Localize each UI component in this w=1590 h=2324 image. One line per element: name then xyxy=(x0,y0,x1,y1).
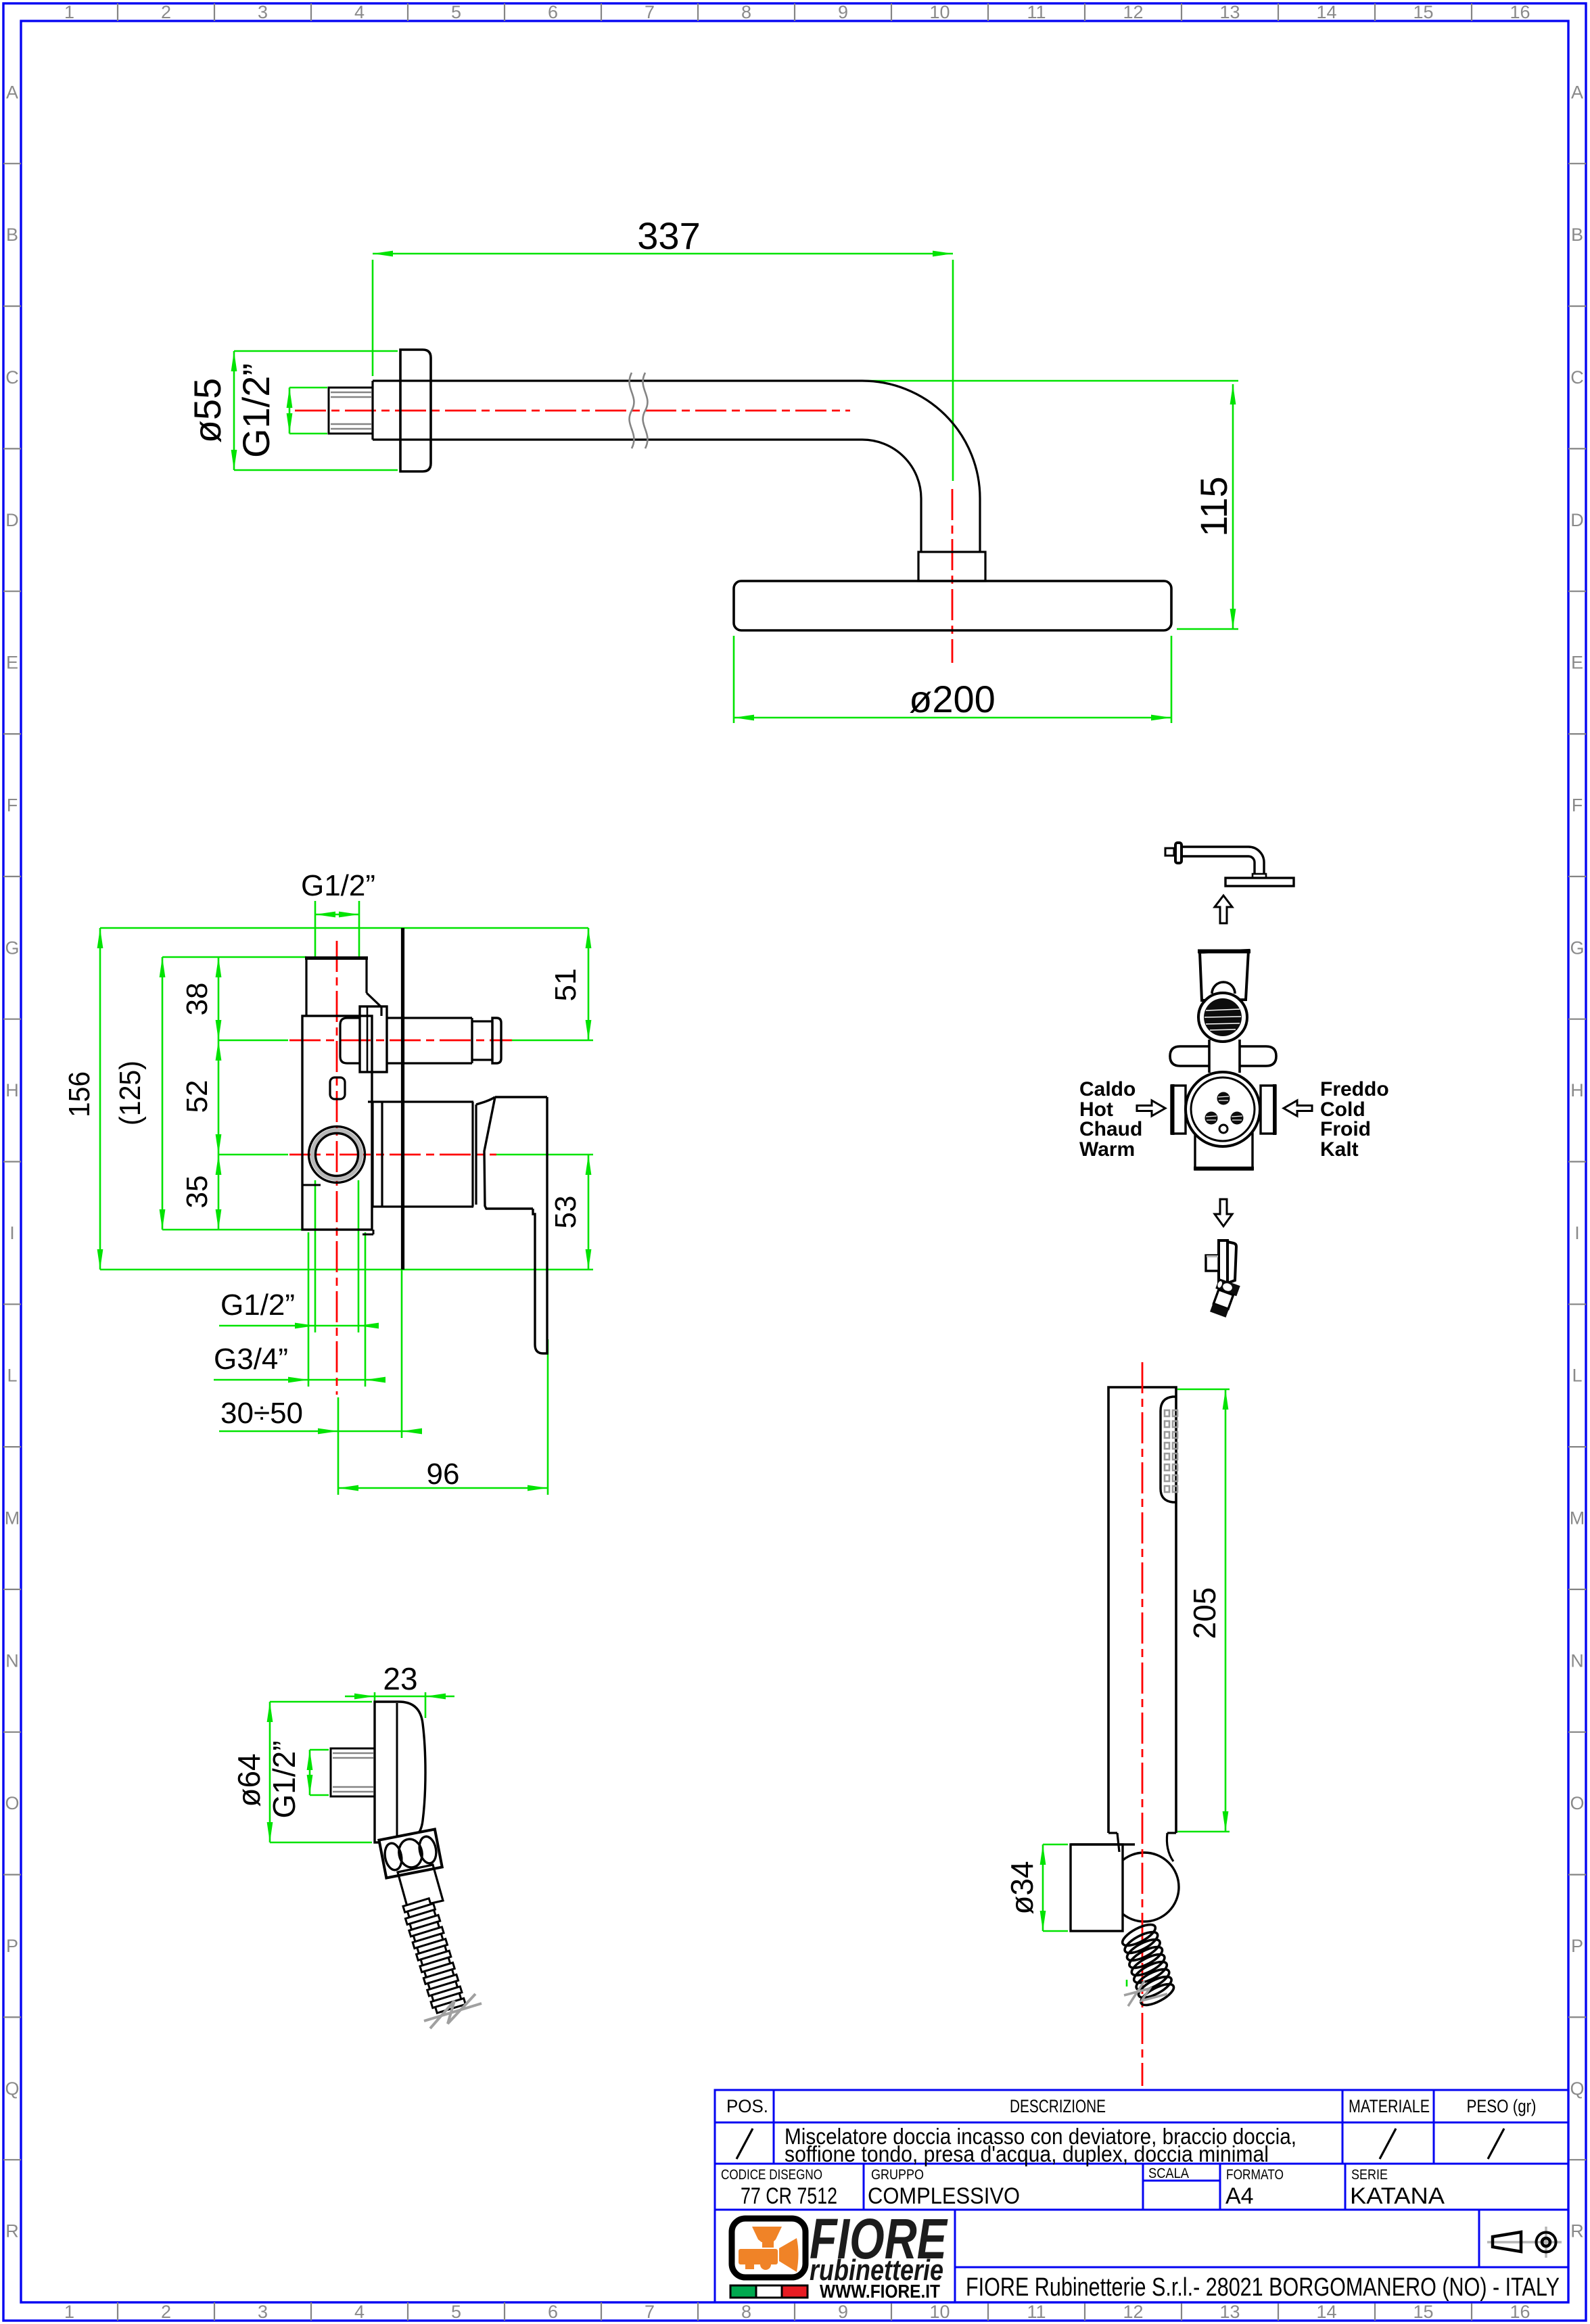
svg-text:10: 10 xyxy=(929,2302,950,2322)
svg-text:N: N xyxy=(1570,1650,1584,1671)
title block header labels xyxy=(726,2096,1537,2116)
svg-text:4: 4 xyxy=(354,2302,365,2322)
svg-text:10: 10 xyxy=(929,2,950,22)
dimension o200 xyxy=(734,717,1171,719)
svg-text:B: B xyxy=(6,225,18,245)
svg-text:Freddo: Freddo xyxy=(1320,1078,1389,1100)
svg-text:G3/4”: G3/4” xyxy=(214,1343,288,1376)
svg-text:96: 96 xyxy=(427,1458,460,1491)
svg-text:3: 3 xyxy=(258,2302,268,2322)
svg-text:ø64: ø64 xyxy=(231,1753,266,1807)
svg-text:4: 4 xyxy=(354,2,365,22)
deviator valve body xyxy=(340,1018,360,1063)
svg-text:D: D xyxy=(5,510,19,530)
deviator centerline xyxy=(289,1040,512,1042)
dimension G1/2 arm xyxy=(289,388,291,434)
outlet nipple G1/2 xyxy=(331,1748,375,1796)
cold labels xyxy=(1320,1078,1389,1161)
centerline arm horizontal xyxy=(295,410,850,412)
schematic shower arm icon xyxy=(1165,843,1294,886)
outlet dim arrowheads xyxy=(267,1694,446,1842)
svg-text:Kalt: Kalt xyxy=(1320,1138,1359,1161)
svg-text:O: O xyxy=(5,1793,19,1813)
svg-text:M: M xyxy=(1570,1508,1585,1529)
cold water arrow xyxy=(1284,1100,1312,1116)
deviator stem xyxy=(387,1018,472,1063)
body neck xyxy=(1108,1833,1176,1861)
svg-text:12: 12 xyxy=(1123,2302,1143,2322)
svg-text:P: P xyxy=(1571,1936,1583,1956)
dim o34 xyxy=(1043,1844,1068,1846)
svg-text:C: C xyxy=(5,367,19,388)
svg-text:WWW.FIORE.IT: WWW.FIORE.IT xyxy=(820,2281,940,2302)
ext+dim 30:50 xyxy=(337,1397,340,1438)
svg-text:POS.: POS. xyxy=(726,2096,768,2116)
deviator escutcheon xyxy=(360,1006,387,1072)
hose nut xyxy=(379,1830,442,1878)
hot water arrow xyxy=(1137,1100,1165,1116)
svg-text:E: E xyxy=(6,653,18,673)
svg-text:11: 11 xyxy=(1027,2,1046,22)
svg-text:I: I xyxy=(1574,1223,1580,1243)
spiral hose xyxy=(1119,1920,1176,2009)
dimension arrowheads arm xyxy=(231,251,1236,721)
svg-text:I: I xyxy=(9,1223,15,1243)
svg-text:R: R xyxy=(1570,2221,1584,2241)
svg-text:ø55: ø55 xyxy=(186,378,229,444)
hand shower red centerline xyxy=(1142,1362,1144,2086)
svg-text:9: 9 xyxy=(838,2302,848,2322)
svg-text:53: 53 xyxy=(549,1196,582,1229)
svg-text:14: 14 xyxy=(1316,2,1336,22)
svg-text:GRUPPO: GRUPPO xyxy=(871,2167,924,2183)
ext+dim G1/2 bottom xyxy=(314,1180,317,1332)
dim G1/2 top xyxy=(314,901,317,960)
pilot hole xyxy=(1219,1125,1227,1133)
spiral break mark xyxy=(1124,1981,1167,2006)
dim G1/2 outlet xyxy=(309,1750,311,1795)
up arrow xyxy=(1215,896,1232,923)
svg-text:16: 16 xyxy=(1510,2302,1530,2322)
svg-text:13: 13 xyxy=(1219,2,1240,22)
ext valve centerline right xyxy=(512,1040,593,1042)
svg-text:CODICE DISEGNO: CODICE DISEGNO xyxy=(721,2167,822,2183)
svg-text:FORMATO: FORMATO xyxy=(1226,2167,1284,2183)
svg-text:8: 8 xyxy=(741,2,751,22)
svg-text:A: A xyxy=(6,82,18,102)
svg-text:Warm: Warm xyxy=(1079,1138,1135,1161)
holder bracket xyxy=(1071,1844,1123,1931)
svg-text:E: E xyxy=(1571,653,1583,673)
svg-text:L: L xyxy=(1572,1366,1582,1386)
head connector xyxy=(918,552,985,581)
svg-text:15: 15 xyxy=(1413,2,1433,22)
hot labels xyxy=(1079,1078,1142,1161)
hose break mark xyxy=(424,1994,482,2028)
ribbed flexible hose xyxy=(402,1897,465,2014)
hand shower dim arrowheads xyxy=(1040,1389,1229,1931)
svg-text:G1/2”: G1/2” xyxy=(235,363,277,458)
svg-text:R: R xyxy=(5,2221,19,2241)
svg-text:3: 3 xyxy=(258,2,268,22)
svg-text:13: 13 xyxy=(1219,2302,1240,2322)
dimension 337 xyxy=(373,253,953,255)
svg-text:Froid: Froid xyxy=(1320,1118,1371,1140)
svg-text:14: 14 xyxy=(1316,2302,1336,2322)
ball joint xyxy=(1110,1853,1179,1922)
dim line 125 xyxy=(162,957,164,1230)
svg-text:G1/2”: G1/2” xyxy=(301,869,375,902)
schematic knob with hatch xyxy=(1198,993,1247,1042)
dimension arrowheads mixer xyxy=(97,912,592,1491)
wall flange xyxy=(400,350,431,471)
svg-text:SCALA: SCALA xyxy=(1148,2166,1189,2181)
svg-text:MATERIALE: MATERIALE xyxy=(1349,2096,1430,2116)
threaded nipple G1/2 xyxy=(329,388,373,434)
ext outlet centerline right xyxy=(496,1154,593,1156)
svg-text:5: 5 xyxy=(451,2302,461,2322)
svg-text:12: 12 xyxy=(1123,2,1143,22)
svg-text:2: 2 xyxy=(161,2302,171,2322)
svg-text:6: 6 xyxy=(548,2,558,22)
schematic hand shower icon xyxy=(1206,1240,1240,1318)
svg-text:H: H xyxy=(5,1080,19,1100)
svg-text:1: 1 xyxy=(64,2302,74,2322)
ext+dim 96 xyxy=(337,1438,340,1495)
bottom outlet rect xyxy=(1195,1134,1253,1169)
body detail slot xyxy=(330,1077,345,1099)
svg-text:337: 337 xyxy=(637,214,700,257)
svg-text:23: 23 xyxy=(383,1661,417,1696)
ext line top 125 xyxy=(162,956,306,958)
svg-text:P: P xyxy=(6,1936,18,1956)
svg-text:M: M xyxy=(5,1508,20,1529)
side inlet tabs xyxy=(1171,1086,1186,1134)
svg-text:30÷50: 30÷50 xyxy=(220,1397,303,1430)
svg-text:Chaud: Chaud xyxy=(1079,1118,1142,1140)
svg-text:SERIE: SERIE xyxy=(1351,2167,1388,2183)
svg-text:7: 7 xyxy=(645,2,655,22)
svg-text:N: N xyxy=(5,1650,19,1671)
svg-text:B: B xyxy=(1571,225,1583,245)
svg-text:2: 2 xyxy=(161,2,171,22)
dim line 53 xyxy=(588,1155,590,1270)
dome behind knob xyxy=(1212,982,1235,994)
svg-text:KATANA: KATANA xyxy=(1350,2183,1445,2209)
deviator knob xyxy=(472,1021,492,1060)
svg-text:Q: Q xyxy=(5,2078,19,2099)
svg-text:205: 205 xyxy=(1187,1587,1222,1640)
title block xyxy=(715,2090,1568,2302)
top supply pipe xyxy=(305,957,381,1016)
hand shower body xyxy=(1108,1387,1176,1833)
hatched ports xyxy=(1205,1092,1244,1125)
mixer vertical centerline xyxy=(336,941,338,1395)
svg-text:F: F xyxy=(1572,795,1583,816)
description row values xyxy=(785,2124,1296,2166)
svg-text:ø34: ø34 xyxy=(1004,1861,1039,1914)
svg-text:FIORE Rubinetterie S.r.l.- 280: FIORE Rubinetterie S.r.l.- 28021 BORGOMA… xyxy=(966,2273,1560,2302)
ext valve centerline left xyxy=(218,1040,288,1042)
svg-text:Caldo: Caldo xyxy=(1079,1078,1136,1100)
dim 23 xyxy=(374,1692,376,1702)
dim line 156 xyxy=(99,928,101,1270)
svg-text:C: C xyxy=(1570,367,1584,388)
ext line bottom 156 xyxy=(100,1269,593,1271)
svg-text:O: O xyxy=(1570,1793,1584,1813)
pipe break symbol xyxy=(630,373,648,448)
svg-text:PESO (gr): PESO (gr) xyxy=(1467,2096,1537,2116)
svg-text:A4: A4 xyxy=(1225,2183,1254,2209)
centerline shower head vertical xyxy=(952,489,954,663)
svg-text:7: 7 xyxy=(645,2302,655,2322)
svg-text:G: G xyxy=(5,937,19,958)
svg-text:1: 1 xyxy=(64,2,74,22)
schematic valve face circle xyxy=(1186,1072,1260,1146)
svg-text:16: 16 xyxy=(1510,2,1530,22)
svg-text:156: 156 xyxy=(63,1071,96,1117)
codice/gruppo/scala/formato/serie row xyxy=(721,2166,1388,2183)
svg-text:35: 35 xyxy=(181,1176,214,1209)
schematic mixer top trapezoid xyxy=(1200,950,1248,1000)
dim 205 xyxy=(1177,1389,1230,1391)
shower head o200 xyxy=(734,581,1171,630)
svg-text:115: 115 xyxy=(1192,476,1235,536)
svg-text:11: 11 xyxy=(1027,2302,1046,2322)
down arrow xyxy=(1215,1199,1232,1226)
svg-text:51: 51 xyxy=(549,969,582,1002)
svg-text:77 CR 7512: 77 CR 7512 xyxy=(741,2183,837,2209)
svg-text:F: F xyxy=(7,795,18,816)
ext+dim G3/4 xyxy=(308,1232,310,1387)
first-angle projection symbol xyxy=(1487,2227,1562,2258)
svg-text:Q: Q xyxy=(1570,2078,1584,2099)
stem xyxy=(1209,1040,1240,1073)
svg-text:H: H xyxy=(1570,1080,1584,1100)
wall section line xyxy=(401,928,404,1270)
body bottom step xyxy=(302,1184,321,1186)
outlet port circle xyxy=(309,1127,365,1183)
dimension 115 xyxy=(1232,384,1234,629)
FIORE logo xyxy=(730,2207,948,2302)
svg-text:15: 15 xyxy=(1413,2302,1433,2322)
spray plate xyxy=(1161,1397,1176,1502)
dim o64 xyxy=(269,1702,271,1842)
svg-text:ø200: ø200 xyxy=(909,678,996,720)
mixer lever handle xyxy=(476,1097,547,1353)
svg-text:(125): (125) xyxy=(114,1061,147,1125)
hose cone xyxy=(398,1865,443,1909)
svg-text:G1/2”: G1/2” xyxy=(266,1740,302,1818)
ext outlet centerline left xyxy=(218,1154,288,1156)
ext line bottom 125 xyxy=(162,1229,306,1231)
outlet body xyxy=(375,1702,425,1842)
svg-text:5: 5 xyxy=(451,2,461,22)
svg-text:G: G xyxy=(1570,937,1584,958)
dim line 51 xyxy=(588,928,590,1040)
arm tube xyxy=(373,381,980,552)
slash placeholders xyxy=(736,2129,1504,2159)
ext line top 156 xyxy=(100,927,588,929)
cartridge housing behind wall xyxy=(368,1102,476,1207)
crossbar xyxy=(1170,1046,1210,1066)
svg-text:A: A xyxy=(1571,82,1583,102)
svg-text:6: 6 xyxy=(548,2302,558,2322)
mixer body xyxy=(302,1016,372,1230)
svg-text:G1/2”: G1/2” xyxy=(220,1288,295,1322)
svg-text:DESCRIZIONE: DESCRIZIONE xyxy=(1010,2096,1106,2116)
svg-text:COMPLESSIVO: COMPLESSIVO xyxy=(868,2183,1020,2209)
svg-text:L: L xyxy=(7,1366,17,1386)
dim chain 38 52 35 xyxy=(218,957,220,1230)
svg-text:9: 9 xyxy=(838,2,848,22)
nozzles xyxy=(1165,1410,1177,1492)
outlet centerline xyxy=(289,1154,496,1156)
dimension o55 xyxy=(233,351,235,470)
svg-text:38: 38 xyxy=(181,983,214,1016)
svg-text:soffione tondo, presa d'acqua,: soffione tondo, presa d'acqua, duplex, d… xyxy=(785,2141,1269,2166)
svg-text:D: D xyxy=(1570,510,1584,530)
svg-text:52: 52 xyxy=(181,1080,214,1113)
svg-text:8: 8 xyxy=(741,2302,751,2322)
